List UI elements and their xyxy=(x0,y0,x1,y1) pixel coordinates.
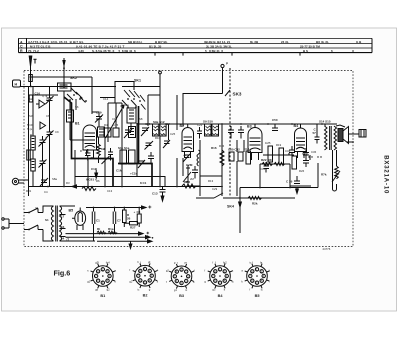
svg-text:1M5: 1M5 xyxy=(265,141,271,145)
earth box H xyxy=(13,80,65,87)
svg-text:G B: G B xyxy=(356,40,362,44)
svg-text:2M: 2M xyxy=(190,177,195,181)
svg-text:S14 S15: S14 S15 xyxy=(319,120,331,124)
svg-text:C34: C34 xyxy=(285,149,291,153)
cap C26 xyxy=(228,126,234,139)
svg-text:+: + xyxy=(134,210,136,214)
wire: bottom bus xyxy=(240,198,295,202)
svg-text:M 3 TE GL E B: M 3 TE GL E B xyxy=(30,45,51,49)
svg-text:SK3: SK3 xyxy=(233,92,242,97)
svg-text:B2: B2 xyxy=(143,294,148,298)
trimmer C4 xyxy=(40,178,48,186)
wire: grid bus xyxy=(64,86,160,88)
svg-text:Fig.6: Fig.6 xyxy=(54,269,71,278)
svg-text:R1: R1 xyxy=(30,133,34,137)
parts table frame xyxy=(19,38,373,55)
svg-text:57: 57 xyxy=(313,131,317,135)
output transformer S14 S15 xyxy=(319,120,345,151)
svg-text:70, 71,2: 70, 71,2 xyxy=(28,49,39,53)
coil S6 xyxy=(67,100,93,140)
svg-text:S8a: S8a xyxy=(52,177,57,181)
svg-text:C13: C13 xyxy=(107,189,113,193)
svg-text:SK2: SK2 xyxy=(70,76,77,80)
svg-text:B S: B S xyxy=(303,49,308,53)
junction dots mid xyxy=(30,86,223,188)
mixer tube B1 xyxy=(75,122,97,159)
svg-text:C4: C4 xyxy=(44,190,48,194)
svg-text:g2: g2 xyxy=(224,260,227,264)
svg-text:R13: R13 xyxy=(208,179,214,183)
antenna terminal A2 xyxy=(63,58,65,88)
svg-text:R26: R26 xyxy=(299,169,305,173)
svg-text:B5: B5 xyxy=(69,209,74,213)
svg-text:C13: C13 xyxy=(152,192,158,196)
svg-text:R1a: R1a xyxy=(108,227,114,231)
svg-text:SK1: SK1 xyxy=(134,79,141,83)
svg-text:C7: C7 xyxy=(117,219,121,223)
mains switch Z1 xyxy=(24,206,48,241)
svg-text:R6: R6 xyxy=(96,179,100,183)
tube base diagram B5 xyxy=(241,260,270,298)
svg-text:+C2a: +C2a xyxy=(130,172,138,176)
rectifier tube B5 xyxy=(69,208,86,231)
svg-text:C36: C36 xyxy=(311,150,317,154)
feedback pot R25 xyxy=(321,150,340,191)
caps C30 C32 xyxy=(228,148,243,162)
svg-text:C30 C32: C30 C32 xyxy=(228,148,240,152)
svg-text:S2: S2 xyxy=(29,97,33,101)
resistor R21 xyxy=(288,152,297,169)
cathode network under B1 xyxy=(72,137,110,188)
coil S13 xyxy=(197,140,200,196)
svg-text:S. 6,5/a 36 TF. X 5 8 6B: S. 6,5/a 36 TF. X 5 8 6B 41 6 xyxy=(92,49,136,53)
svg-text:C6: C6 xyxy=(46,114,50,118)
svg-text:g4: g4 xyxy=(107,260,110,264)
svg-text:g2: g2 xyxy=(107,288,110,292)
wire: mid verticals xyxy=(116,86,177,130)
svg-text:26: 26 xyxy=(127,217,131,221)
wire: SK3 to B2 grid xyxy=(183,94,223,127)
misc small value labels xyxy=(26,97,317,194)
svg-text:A: A xyxy=(20,40,23,44)
resistor R24 xyxy=(248,197,262,206)
resistor R7 xyxy=(182,180,196,188)
svg-text:8 C1: 8 C1 xyxy=(140,181,147,185)
svg-text:SK4: SK4 xyxy=(227,205,234,209)
svg-text:B3: B3 xyxy=(247,125,252,129)
svg-text:BX 3L 3L: BX 3L 3L xyxy=(316,40,329,44)
svg-text:R10: R10 xyxy=(155,136,161,140)
ground det xyxy=(239,202,242,207)
wire: B+ drop arrow xyxy=(129,241,132,248)
cap C50 xyxy=(272,118,278,131)
svg-text:C25: C25 xyxy=(170,132,176,136)
phono jack GR xyxy=(12,178,28,184)
detector parts xyxy=(268,146,295,164)
svg-text:Rt: Rt xyxy=(97,227,100,231)
svg-text:54: 54 xyxy=(61,237,65,241)
svg-text:C35: C35 xyxy=(260,167,266,171)
svg-text:C18: C18 xyxy=(112,117,118,121)
tube base diagram B3 xyxy=(166,261,195,298)
cap C27 xyxy=(238,126,244,139)
resistor R30 heater hum xyxy=(97,231,117,234)
smoothing cap C1 xyxy=(92,208,100,234)
tube base diagram B2 xyxy=(129,260,158,298)
cap C57 xyxy=(308,124,321,158)
HT bus wire xyxy=(137,124,353,142)
tube base diagram B4 xyxy=(204,260,234,298)
svg-text:C2M: C2M xyxy=(186,163,193,167)
osc coil S7 xyxy=(127,108,136,123)
resistor R16 xyxy=(211,146,224,166)
svg-text:C16: C16 xyxy=(35,92,41,96)
trimmer C8 xyxy=(46,131,54,139)
external speaker socket xyxy=(349,130,367,138)
HT feed wire xyxy=(86,206,146,209)
svg-text:4,30: 4,30 xyxy=(78,49,84,53)
smoothing cap C7 xyxy=(113,208,121,234)
svg-text:R2k: R2k xyxy=(252,202,258,206)
IF tube B3 xyxy=(247,124,262,160)
wire: output return xyxy=(240,163,318,233)
terminal A xyxy=(159,71,162,86)
resistor R27 xyxy=(124,222,139,230)
svg-text:C15: C15 xyxy=(113,123,119,127)
svg-text:9,41-51,90 TE B 7,5c 41 P 31 T: 9,41-51,90 TE B 7,5c 41 P 31 T xyxy=(76,45,124,49)
svg-text:X: X xyxy=(352,49,354,53)
wire: left mid rails xyxy=(64,100,183,186)
junction dots top bus xyxy=(221,123,354,143)
svg-text:C: C xyxy=(20,45,23,49)
svg-text:R7k: R7k xyxy=(321,173,327,177)
trimmer C5 xyxy=(145,141,154,150)
svg-text:AA776.4 Eq.8 123L 96.01 B B/: AA776.4 Eq.8 123L 96.01 B B/7 BL xyxy=(28,40,84,44)
svg-text:C29: C29 xyxy=(212,187,218,191)
svg-text:C1: C1 xyxy=(96,219,100,223)
volume pot R19 xyxy=(183,165,191,185)
trimmer C16 xyxy=(29,92,53,105)
svg-text:S (e: S (e xyxy=(27,127,33,131)
svg-text:H: H xyxy=(15,83,18,87)
svg-text:C1B: C1B xyxy=(91,167,98,171)
trimmer C2 xyxy=(39,157,47,169)
terminal P xyxy=(221,62,228,68)
svg-text:3B.2B B. B2 14. 21: 3B.2B B. B2 14. 21 xyxy=(204,40,231,44)
cap C22 xyxy=(197,127,202,139)
svg-text:R19: R19 xyxy=(276,143,282,147)
svg-text:C24: C24 xyxy=(165,122,171,126)
wire: detector net xyxy=(188,140,244,196)
wire: grid rail upper xyxy=(30,76,92,114)
svg-text:17: 17 xyxy=(61,215,65,219)
chassis loop frame xyxy=(75,177,165,187)
svg-text:C9: C9 xyxy=(55,130,59,134)
svg-text:B B/7 BL: B B/7 BL xyxy=(155,40,168,44)
tone network wires xyxy=(260,155,311,186)
svg-text:S9 S10: S9 S10 xyxy=(203,120,213,124)
band switch SK1 xyxy=(100,79,146,110)
mains plug xyxy=(2,218,24,229)
heater bus wires xyxy=(66,206,154,239)
svg-text:B1: B1 xyxy=(100,294,105,298)
band switch SK2 xyxy=(58,76,87,110)
svg-text:B1: B1 xyxy=(75,122,80,126)
shield cable bold runs xyxy=(64,97,152,187)
bottom return wire xyxy=(64,234,152,243)
svg-text:C5: C5 xyxy=(46,98,50,102)
svg-text:g1: g1 xyxy=(87,280,90,284)
cap C39 xyxy=(286,176,300,194)
svg-text:C14: C14 xyxy=(103,97,109,101)
small parts row under gang xyxy=(104,120,166,138)
svg-text:S9a S12: S9a S12 xyxy=(153,120,165,124)
resistor R18 xyxy=(246,151,251,164)
tube base diagram B1 xyxy=(87,260,116,298)
svg-text:g1: g1 xyxy=(174,288,177,292)
padder box xyxy=(129,127,136,138)
table row 3 text xyxy=(20,49,354,53)
svg-text:R18: R18 xyxy=(244,147,250,151)
coil S5 xyxy=(98,127,105,137)
svg-text:25-77 35 B 7M: 25-77 35 B 7M xyxy=(300,45,320,49)
IF transformer S9 S10 xyxy=(203,120,219,137)
svg-text:24 3L: 24 3L xyxy=(281,40,289,44)
svg-text:BX321A-10: BX321A-10 xyxy=(383,155,389,194)
svg-text:g2: g2 xyxy=(129,279,132,283)
table row 1 text xyxy=(20,40,362,44)
wire: front-end verticals xyxy=(33,87,50,187)
diode marks xyxy=(36,100,46,129)
cap C13 xyxy=(152,187,166,202)
AVC bus wire xyxy=(28,186,222,188)
svg-text:R22 R23: R22 R23 xyxy=(261,158,273,162)
coil S3 xyxy=(31,136,35,150)
dashed chassis boundary box xyxy=(24,71,353,247)
svg-text:S7a: S7a xyxy=(124,103,129,107)
svg-text:B1 3L.35: B1 3L.35 xyxy=(149,45,162,49)
junction dots return xyxy=(239,187,291,199)
cap C36 xyxy=(303,157,309,167)
svg-text:B4: B4 xyxy=(294,124,299,128)
cap C35 xyxy=(264,162,270,173)
svg-text:R27: R27 xyxy=(130,226,136,230)
switch SK4 xyxy=(196,193,240,209)
svg-text:C3: C3 xyxy=(137,210,141,214)
resistor R23 xyxy=(274,163,285,166)
svg-text:R4: R4 xyxy=(104,123,108,127)
IF tube B2 xyxy=(180,124,194,158)
resistor on aerial rail xyxy=(27,150,30,160)
svg-text:S1: S1 xyxy=(45,218,49,222)
trimmer C1 xyxy=(39,136,47,148)
svg-text:S3: S3 xyxy=(29,114,33,118)
svg-text:C22: C22 xyxy=(197,123,203,127)
resistor R22 xyxy=(262,163,273,166)
svg-text:24776: 24776 xyxy=(323,247,331,251)
trimmer C19 xyxy=(92,77,103,127)
loudspeaker xyxy=(338,127,349,144)
svg-text:S6: S6 xyxy=(75,105,79,109)
svg-text:C 39: C 39 xyxy=(286,180,293,184)
cap C3 electrolytic xyxy=(134,208,142,228)
svg-text:5 8 6B 41 6: 5 8 6B 41 6 xyxy=(205,49,223,53)
power transformer S1 xyxy=(45,206,75,242)
svg-text:g2: g2 xyxy=(166,269,169,273)
output tube B4 xyxy=(294,124,307,158)
svg-text:3L 3B 3A B. 3M 3L: 3L 3B 3A B. 3M 3L xyxy=(206,45,232,49)
svg-text:B5: B5 xyxy=(255,294,260,298)
table row 2 text xyxy=(20,45,320,49)
svg-text:C1M: C1M xyxy=(116,169,123,173)
svg-text:R3: R3 xyxy=(66,181,70,185)
svg-text:8L 3B: 8L 3B xyxy=(250,40,259,44)
svg-text:gd: gd xyxy=(95,288,98,292)
label cluster xyxy=(27,94,48,131)
cap C38 xyxy=(302,148,309,157)
svg-text:53: 53 xyxy=(61,225,65,229)
resistor R26 xyxy=(123,208,131,228)
svg-text:R16: R16 xyxy=(219,144,225,148)
svg-text:g3: g3 xyxy=(212,288,215,292)
svg-text:C23: C23 xyxy=(145,122,151,126)
svg-text:SB B13 H.: SB B13 H. xyxy=(128,40,143,44)
svg-text:B3: B3 xyxy=(179,294,184,298)
svg-text:S11 S1a: S11 S1a xyxy=(118,146,130,150)
coil S4 xyxy=(31,159,35,171)
svg-text:S8: S8 xyxy=(139,117,143,121)
antenna terminal A1 xyxy=(29,56,37,87)
wire: left input rails xyxy=(29,82,59,196)
second IF parts cluster xyxy=(108,140,198,179)
svg-text:R16: R16 xyxy=(211,146,217,150)
switch SK3 xyxy=(222,68,242,196)
tuning gang frame xyxy=(108,103,122,142)
svg-text:P: P xyxy=(226,62,228,66)
svg-text:R31: R31 xyxy=(26,189,32,193)
svg-text:C50: C50 xyxy=(272,118,278,122)
resistor R6 xyxy=(82,187,96,191)
svg-text:R: R xyxy=(20,49,23,53)
